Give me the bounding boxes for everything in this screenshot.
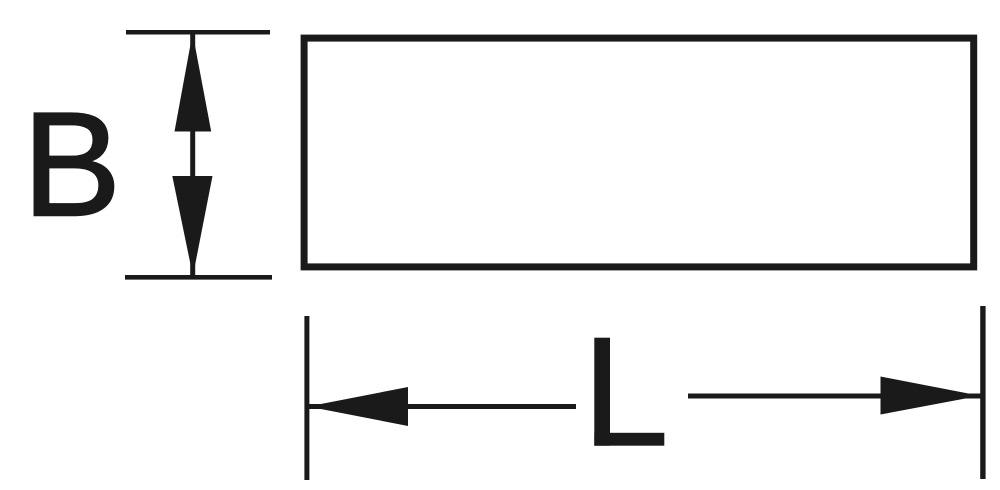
L left extension line bbox=[304, 316, 309, 480]
svg-text:B: B bbox=[22, 82, 121, 247]
label L bottom bar bbox=[594, 433, 664, 446]
B bottom extension line bbox=[125, 275, 272, 280]
L dimension arrow left bbox=[308, 387, 408, 426]
rectangle outline bbox=[304, 38, 974, 267]
B dimension arrow up bbox=[175, 33, 212, 132]
B dimension arrow down bbox=[172, 176, 212, 276]
L dimension line right segment bbox=[688, 394, 983, 399]
label L stem bbox=[594, 338, 610, 446]
B dimension shaft bbox=[190, 33, 195, 276]
L right extension line bbox=[980, 306, 985, 479]
L dimension arrow right bbox=[881, 377, 981, 415]
L dimension line left segment bbox=[307, 404, 576, 409]
B top extension line bbox=[126, 30, 270, 35]
